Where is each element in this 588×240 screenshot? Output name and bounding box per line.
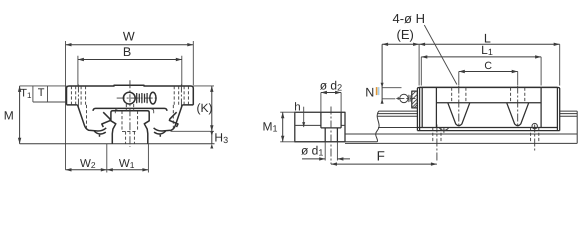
bolt hole hidden lines left	[71, 86, 86, 128]
dimension h	[294, 102, 305, 128]
W2 W1 extension lines	[107, 144, 149, 173]
bolt hole centerline right	[180, 85, 182, 107]
rail bottom side view	[345, 142, 577, 144]
block bolt hole 2 funnel	[507, 103, 529, 126]
dimension d1	[301, 142, 350, 161]
section centerline	[330, 107, 332, 165]
B extension lines	[78, 56, 182, 86]
L right extension	[559, 44, 561, 85]
block right end seal	[557, 88, 559, 131]
counterbore	[321, 112, 341, 142]
svg-text:F: F	[377, 148, 385, 163]
rail top and groove lines right of block	[560, 111, 578, 116]
rail hole 1 centerline F extension	[436, 125, 438, 162]
dimension M1	[262, 112, 296, 142]
ball return arc left	[439, 128, 448, 133]
dimension E and L line	[382, 27, 560, 46]
grease nipple base hatched	[412, 91, 418, 108]
block lower reference line	[378, 127, 417, 129]
rail centerline	[129, 80, 131, 147]
rail lower line	[345, 133, 577, 135]
block wing bottoms	[67, 104, 194, 106]
left seal arc	[94, 131, 106, 137]
end cap body joints	[436, 88, 541, 128]
dimension N	[365, 44, 401, 104]
dimension F	[331, 148, 437, 166]
dimension (K)	[197, 86, 214, 131]
block outline	[67, 85, 194, 105]
svg-text:4-ø H: 4-ø H	[393, 11, 426, 26]
inner cavity corners	[115, 109, 153, 113]
svg-text:T: T	[38, 87, 45, 99]
T1 tick	[32, 86, 34, 102]
right lip tooth	[169, 112, 178, 127]
block bolt hole 1 funnel	[448, 103, 470, 126]
hole 2 hidden lines	[511, 88, 525, 103]
cursor marks	[376, 87, 378, 95]
dimension W2 W1 line	[66, 158, 149, 172]
dimension W line	[66, 30, 194, 47]
bolt hole hidden lines right	[173, 86, 188, 128]
dimension M line	[4, 86, 21, 144]
rail right end	[576, 111, 578, 143]
label 4-oH with leader	[393, 11, 457, 85]
rail hole 2 centerline	[534, 125, 536, 152]
ground line under rail	[20, 143, 215, 145]
svg-text:(E): (E)	[397, 27, 414, 42]
grease port hidden lines	[126, 104, 133, 111]
rail cross-section	[111, 111, 149, 144]
right seal arc	[154, 131, 166, 137]
W extension line right	[192, 41, 194, 85]
block lower seal line	[417, 130, 559, 132]
svg-text:W: W	[123, 30, 135, 44]
hole 1 centerline	[458, 86, 460, 128]
block top	[417, 88, 559, 90]
svg-text:N: N	[365, 86, 374, 100]
right arm outer edge	[154, 105, 183, 131]
rail break curve	[376, 111, 379, 142]
block top gray highlight	[420, 85, 558, 87]
svg-text:B: B	[123, 45, 131, 59]
hole 2 centerline	[517, 86, 519, 128]
block bottom line	[417, 127, 557, 129]
dimension L1	[421, 43, 541, 86]
rail top and groove lines left of block	[377, 111, 417, 116]
E right extension	[418, 44, 420, 85]
block interior line	[436, 102, 541, 104]
dimension C	[459, 60, 518, 85]
ball return circle right	[532, 123, 537, 128]
seal plate under block	[93, 108, 167, 111]
dimension B line	[78, 45, 182, 61]
block top extension to M	[20, 85, 67, 87]
rail segment outline	[295, 112, 345, 142]
dimension H3	[210, 131, 228, 149]
svg-text:(K): (K)	[197, 101, 213, 115]
left lip tooth	[102, 112, 111, 127]
hole 1 hidden lines	[452, 88, 466, 103]
rail groove line	[295, 124, 345, 126]
svg-text:M: M	[4, 108, 14, 122]
bolt hole centerline left	[77, 85, 79, 107]
grease nipple side view	[396, 94, 415, 102]
dimension d2	[320, 78, 342, 112]
(K) and H3 shared extension	[171, 130, 215, 132]
rail counterbore hidden lines	[122, 111, 138, 144]
T tick	[47, 86, 49, 102]
rail mounting hole 1 hidden	[433, 128, 441, 144]
svg-text:W1: W1	[119, 158, 135, 170]
svg-text:W2: W2	[80, 158, 96, 170]
svg-text:C: C	[484, 60, 492, 72]
T reference line	[33, 101, 67, 103]
grease nipple front view	[117, 92, 159, 104]
block left end seal	[417, 88, 422, 131]
W extension line left shared with W2	[65, 41, 67, 170]
rail mounting hole 2 hidden	[531, 128, 539, 144]
rail bottom section part	[295, 141, 378, 143]
left arm outer edge	[78, 105, 107, 131]
svg-text:h: h	[294, 102, 300, 114]
(K) top extension	[194, 85, 215, 87]
